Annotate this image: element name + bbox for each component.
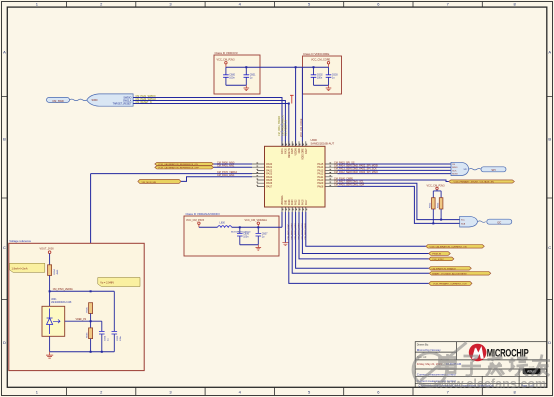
svg-text:TARGET_RESET: TARGET_RESET	[113, 103, 132, 106]
svg-text:SPI: SPI	[491, 168, 495, 172]
svg-text:U600: U600	[311, 138, 318, 142]
watermark glyph fa	[486, 354, 504, 376]
svg-text:PA19: PA19	[298, 199, 301, 205]
svg-text:VDDANA: VDDANA	[281, 195, 284, 205]
title block outline	[415, 342, 547, 388]
power port VCC_CM_VDDANA	[245, 219, 268, 227]
column ticks top	[67, 2, 483, 8]
svg-text:PA27: PA27	[305, 148, 308, 154]
svg-text:VDDIN: VDDIN	[296, 148, 298, 155]
svg-text:B: B	[3, 137, 6, 142]
wire VREFA to U600	[91, 173, 252, 175]
row ticks left	[2, 97, 8, 300]
svg-text:PA18: PA18	[301, 199, 304, 205]
power label VIN_MON_MB	[138, 179, 181, 183]
junction VREFA	[90, 290, 92, 292]
ground symbol	[46, 352, 53, 358]
wire VREF_P2 node	[65, 320, 102, 322]
VREF	[9, 239, 144, 370]
svg-text:RESETN: RESETN	[289, 148, 291, 158]
svg-text:PA31: PA31	[281, 148, 284, 154]
watermark glyph dian	[440, 354, 456, 373]
wire VDDANA pin to box	[281, 212, 283, 227]
resistor R604	[48, 265, 59, 276]
wire 3V3 rail to VDDCORE box	[226, 66, 303, 68]
WATERMARK	[412, 343, 550, 391]
wire SWCLK	[133, 101, 285, 147]
wire SDA	[338, 186, 460, 223]
watermark needle	[421, 343, 467, 381]
svg-text:Voltage reference: Voltage reference	[9, 239, 31, 243]
svg-text:C604: C604	[105, 335, 107, 341]
junctions rail	[90, 351, 92, 353]
capacitor C604	[99, 321, 110, 352]
svg-text:I2C: I2C	[497, 220, 501, 224]
svg-text:VDDCORE: VDDCORE	[302, 148, 304, 160]
Microchip logo meatball	[469, 344, 487, 362]
svg-text:PA22: PA22	[295, 199, 298, 205]
left pin names PA00-PA07	[266, 163, 273, 188]
SWD	[47, 94, 294, 146]
svg-text:VCC_CM_P3V3: VCC_CM_P3V3	[427, 184, 446, 187]
note current limit	[10, 263, 45, 272]
left row net label VCM_CALIBRATION_REF_ON	[155, 162, 214, 166]
svg-text:100n: 100n	[317, 77, 323, 80]
resistor R603	[438, 198, 443, 220]
power port VCC_CM_P3V3	[217, 59, 236, 68]
svg-text:R606: R606	[87, 332, 89, 338]
wire to L2	[302, 212, 428, 254]
svg-text:R605: R605	[87, 306, 89, 312]
svg-text:PA28: PA28	[291, 148, 294, 154]
harness connector SWD	[87, 94, 133, 106]
svg-text:PA08: PA08	[317, 185, 324, 188]
pin number marks right	[330, 163, 332, 185]
svg-text:www.elecfans.com: www.elecfans.com	[433, 377, 546, 391]
watermark ring logo	[413, 353, 447, 387]
harness connector I2C	[460, 216, 478, 227]
watermark glyph zi	[462, 356, 482, 376]
svg-text:VREF_P2: VREF_P2	[76, 318, 87, 321]
wire SS	[338, 163, 452, 165]
watermark glyph shao	[509, 355, 528, 376]
column numbers bottom	[36, 390, 517, 395]
svg-text:B: B	[548, 137, 551, 142]
port VCM_PRIMARY_SHUNT_DISABLE	[449, 180, 515, 184]
capacitor C602	[311, 67, 324, 85]
svg-text:SWD: SWD	[92, 98, 98, 102]
svg-text:SCK: SCK	[452, 170, 457, 172]
voltage reference region box	[9, 243, 144, 370]
svg-text:PA24: PA24	[288, 199, 291, 205]
port CLK_SYNC	[429, 257, 454, 261]
watermark hub dot	[412, 368, 416, 372]
BOTTOM	[282, 212, 491, 286]
watermark glyph you	[532, 355, 551, 377]
svg-text:C: C	[3, 245, 6, 250]
resistor R606	[87, 328, 93, 352]
port CALIBRATION_ENABLE	[429, 267, 472, 271]
wire VDDIN drop to U600	[295, 67, 297, 146]
svg-text:A: A	[3, 50, 6, 55]
svg-text:Drawn By:: Drawn By:	[417, 343, 429, 347]
power port VCC_CM_CORE	[311, 59, 331, 68]
pin number marks bottom	[283, 209, 307, 211]
svg-text:PA07: PA07	[266, 185, 273, 188]
capacitor C605	[112, 291, 123, 352]
wire to L6	[289, 212, 429, 283]
svg-text:GND: GND	[285, 200, 287, 205]
ground in VDDCORE box	[326, 85, 332, 90]
top pin names vertical	[281, 148, 308, 160]
wire to L5	[292, 212, 429, 273]
svg-text:PWM_IN: PWM_IN	[432, 254, 441, 256]
sheet symbol box VDDANA	[184, 212, 279, 256]
svg-text:C605: C605	[117, 335, 119, 341]
wire VREFA node horizontal	[50, 290, 115, 292]
svg-text:D: D	[548, 340, 551, 345]
port PWM_IN	[429, 252, 451, 256]
Altium badge	[523, 366, 541, 375]
port SMART_VOLTAGE_ADJUSTMENT	[429, 272, 491, 276]
sheet symbol box VDD3V3	[214, 51, 260, 94]
right pin names PA15-PA08	[317, 163, 324, 188]
wire SCL	[338, 183, 460, 219]
svg-text:SAMD21E16B-AUT: SAMD21E16B-AUT	[311, 142, 335, 146]
svg-text:PA30: PA30	[284, 148, 287, 154]
ferrite bead L600	[217, 226, 231, 228]
ground under U600	[282, 212, 288, 246]
svg-text:1.8mA<I<2mA: 1.8mA<I<2mA	[12, 267, 28, 270]
wire CMP0 to port	[338, 180, 449, 182]
svg-text:VCM_PRIMARY_CURRENT_OUT: VCM_PRIMARY_CURRENT_OUT	[433, 283, 467, 286]
svg-text:SDA: SDA	[461, 222, 466, 225]
row letters right	[548, 50, 551, 346]
svg-text:A: A	[548, 50, 551, 55]
wire PA00	[214, 163, 253, 165]
svg-text:PA17: PA17	[305, 199, 308, 205]
svg-text:D: D	[3, 340, 6, 345]
capacitor C600	[223, 67, 236, 85]
svg-text:Vo = 2.048V: Vo = 2.048V	[100, 282, 114, 285]
power port VCC_CM_P3V3 (ana)	[186, 219, 205, 227]
svg-text:CALIBRATION_ENABLE: CALIBRATION_ENABLE	[432, 267, 457, 270]
capacitor C606	[237, 227, 250, 245]
RIGHTSIDE	[334, 161, 514, 227]
row ticks right	[547, 97, 553, 300]
wire to L3	[299, 212, 429, 259]
off-sheet connector CM_SWD	[47, 97, 70, 102]
wire to L1	[306, 212, 426, 246]
capacitor C603	[326, 67, 339, 85]
svg-text:100n: 100n	[120, 335, 122, 341]
svg-text:SPI: SPI	[464, 169, 468, 171]
port VCM_MCLR_OUT	[429, 281, 472, 285]
svg-text:R603: R603	[438, 202, 440, 208]
ground rail	[50, 351, 115, 353]
wire cap bottoms	[314, 84, 329, 86]
svg-text:VCM_CALIBRATION_REFERENCE_OFF: VCM_CALIBRATION_REFERENCE_OFF	[158, 166, 199, 169]
harness cable squiggle	[70, 99, 88, 101]
svg-text:MOSI: MOSI	[452, 174, 458, 176]
svg-text:U601: U601	[51, 299, 57, 301]
junction reset	[288, 103, 290, 105]
resistor R602	[430, 198, 435, 224]
capacitor C607	[256, 227, 269, 245]
column ticks bottom	[67, 387, 483, 395]
wire MOSI	[338, 166, 452, 168]
svg-text:4k99: 4k99	[57, 269, 59, 275]
svg-text:VCM_CALIBRATION_CURRENT_ON: VCM_CALIBRATION_CURRENT_ON	[430, 245, 467, 248]
svg-text:Class D VDD3V3: Class D VDD3V3	[215, 51, 238, 55]
svg-text:VCC_CM_VDDANA: VCC_CM_VDDANA	[245, 219, 268, 222]
junction	[295, 66, 297, 68]
bottom pin stubs	[282, 207, 306, 212]
svg-text:VOUT_3V00: VOUT_3V00	[40, 248, 55, 251]
wire cap bottoms ana	[240, 244, 258, 246]
wire PA01	[214, 166, 253, 168]
svg-text:100n: 100n	[229, 77, 235, 80]
svg-text:Class D VDDCORE: Class D VDDCORE	[303, 52, 329, 56]
bottom pin names vertical	[281, 195, 308, 205]
wire rail right of L600 to U600 VDDANA pin	[232, 226, 282, 228]
shunt reference U601	[42, 291, 72, 352]
svg-text:CM_RESET_N: CM_RESET_N	[285, 120, 288, 136]
junction	[245, 66, 247, 68]
junction	[313, 66, 315, 68]
wire VIN_MON jog	[181, 177, 252, 182]
TITLEBLOCK	[415, 342, 547, 388]
junctions	[239, 226, 241, 228]
note Vo	[98, 278, 140, 287]
off-sheet connector SPI	[481, 167, 506, 172]
wire rail left of L600	[199, 226, 218, 228]
svg-text:SMART_VOLTAGE_ADJUSTMENT: SMART_VOLTAGE_ADJUSTMENT	[432, 272, 467, 275]
ground in VDD3V3 box	[244, 85, 250, 90]
wire MISO	[338, 173, 452, 175]
off-sheet connector I2C	[487, 219, 512, 224]
svg-text:CM_SWD: CM_SWD	[52, 99, 64, 103]
wire VDDCORE drop to U600	[301, 67, 303, 146]
column numbers top	[36, 2, 517, 7]
harness squiggle I2C	[478, 221, 486, 222]
wire SWDIO	[133, 98, 282, 147]
wire rail in VDDCORE box	[303, 66, 329, 68]
svg-text:VCC_CM_CORE: VCC_CM_CORE	[300, 118, 303, 137]
top pin stubs	[282, 141, 306, 146]
svg-text:R602: R602	[430, 202, 432, 208]
row letters left	[3, 50, 6, 346]
svg-text:VCC_CM_P3V3: VCC_CM_P3V3	[186, 219, 205, 222]
capacitor C601	[244, 67, 257, 85]
IC	[91, 138, 338, 303]
harness connector SPI	[451, 162, 469, 175]
power port VOUT_3V00	[40, 248, 55, 265]
svg-text:VCM_PRIMARY_SHUNT_VOLTAGE_EN: VCM_PRIMARY_SHUNT_VOLTAGE_EN	[454, 181, 495, 184]
pin number marks top	[283, 144, 307, 146]
svg-text:Microchip Norway: Microchip Norway	[417, 348, 441, 352]
harness squiggle SPI	[469, 169, 481, 170]
wire to L4	[296, 212, 429, 268]
wire SCK	[338, 169, 452, 171]
pin number marks left	[257, 163, 259, 185]
junction VREF_P2	[90, 320, 92, 322]
svg-text:PA23: PA23	[291, 199, 294, 205]
left row net label VCM_CALIBRATION_REF_OFF	[155, 166, 214, 170]
sheet symbol box VDDCORE	[303, 52, 342, 94]
no-ERC reset tie	[290, 95, 294, 103]
right pin stubs	[325, 164, 338, 186]
svg-text:MISO: MISO	[452, 167, 458, 169]
svg-text:GND: GND	[299, 148, 301, 153]
svg-text:Class D VDDANA/VDDIO: Class D VDDANA/VDDIO	[186, 212, 221, 216]
svg-text:100n: 100n	[243, 236, 249, 239]
junction SDA pullup	[432, 222, 434, 224]
svg-text:LM4040DIM3-2.048: LM4040DIM3-2.048	[51, 302, 72, 304]
resistor R605	[87, 303, 93, 328]
wire TARGET_RESET	[133, 104, 289, 147]
svg-text:VCC_CM_CORE: VCC_CM_CORE	[311, 59, 331, 62]
BOXES	[184, 51, 342, 256]
svg-text:CM_P3V0_VERFA: CM_P3V0_VERFA	[53, 288, 73, 291]
svg-text:VIN_MON_MB: VIN_MON_MB	[142, 182, 157, 184]
left pin stubs	[252, 164, 265, 186]
svg-text:R604: R604	[54, 268, 56, 274]
junction SCL pullup	[440, 219, 442, 221]
svg-text:stealth: stealth	[529, 366, 535, 369]
svg-text:L600: L600	[220, 222, 226, 225]
ground in VDDANA box	[256, 245, 262, 250]
power port VCC_CM_P3V3 pullups	[427, 184, 446, 197]
wire R604 to VREFA node	[49, 275, 51, 291]
svg-text:C: C	[548, 245, 551, 250]
svg-text:CLK_SYNC: CLK_SYNC	[432, 259, 444, 261]
MCU U600 body	[265, 146, 326, 207]
port VCM_CALIBRATION_CURRENT_ON	[426, 245, 484, 249]
wire cap bottoms	[226, 84, 246, 86]
wire VREFA vertical	[90, 174, 92, 303]
